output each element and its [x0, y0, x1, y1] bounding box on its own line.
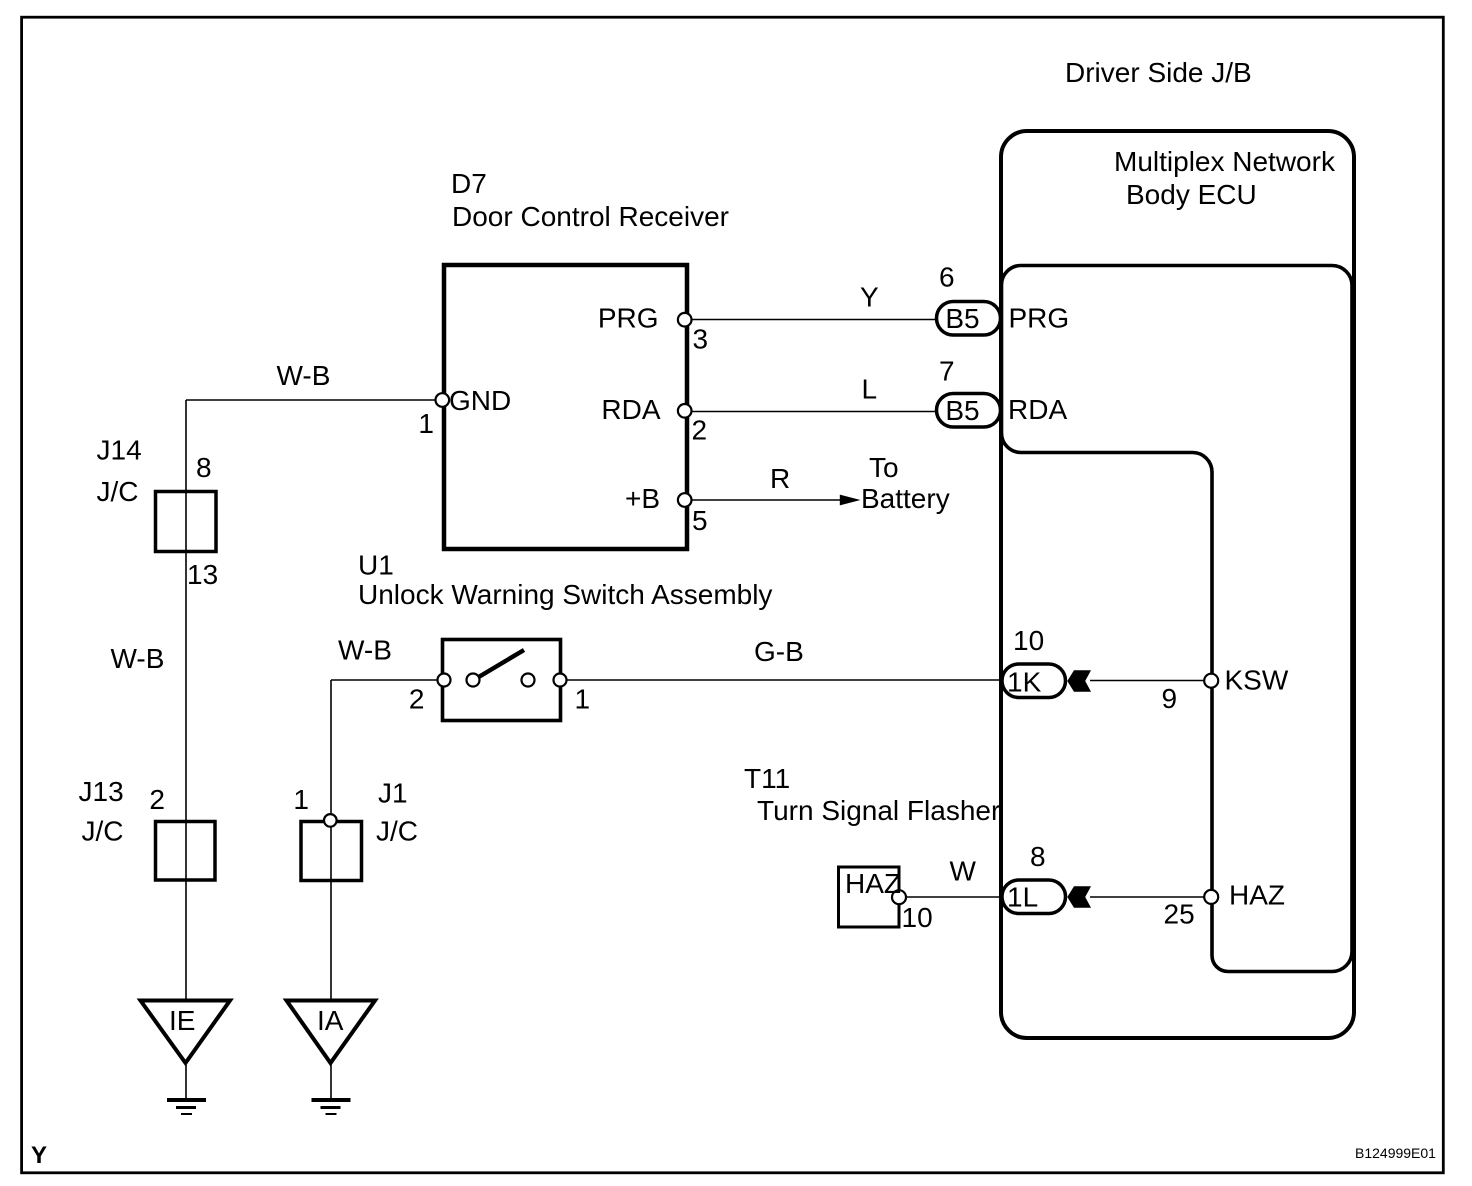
- svg-text:B5: B5: [945, 395, 979, 426]
- svg-text:13: 13: [187, 559, 218, 590]
- svg-text:J1: J1: [378, 778, 408, 809]
- svg-text:L: L: [862, 374, 878, 405]
- svg-text:9: 9: [1162, 683, 1178, 714]
- svg-text:10: 10: [1013, 625, 1044, 656]
- svg-text:Body ECU: Body ECU: [1126, 179, 1257, 210]
- svg-text:J/C: J/C: [97, 476, 139, 507]
- svg-text:Turn Signal Flasher: Turn Signal Flasher: [757, 795, 1000, 826]
- svg-text:U1: U1: [358, 550, 394, 581]
- svg-text:W-B: W-B: [277, 360, 331, 391]
- svg-text:D7: D7: [451, 168, 487, 199]
- svg-text:IA: IA: [317, 1005, 344, 1036]
- svg-text:Multiplex Network: Multiplex Network: [1114, 146, 1336, 177]
- svg-text:8: 8: [1030, 841, 1046, 872]
- svg-text:To: To: [869, 452, 899, 483]
- svg-text:10: 10: [902, 902, 933, 933]
- svg-text:IE: IE: [169, 1005, 195, 1036]
- svg-text:KSW: KSW: [1225, 665, 1289, 696]
- svg-text:+B: +B: [625, 483, 660, 514]
- svg-text:1: 1: [293, 784, 309, 815]
- svg-text:Y: Y: [860, 282, 879, 313]
- svg-text:PRG: PRG: [598, 303, 659, 334]
- svg-text:W-B: W-B: [338, 635, 392, 666]
- svg-text:T11: T11: [744, 763, 790, 794]
- svg-text:GND: GND: [449, 385, 511, 416]
- svg-text:2: 2: [149, 784, 165, 815]
- svg-text:B5: B5: [945, 303, 979, 334]
- svg-text:1: 1: [418, 408, 434, 439]
- svg-text:R: R: [770, 463, 790, 494]
- svg-text:Door Control Receiver: Door Control Receiver: [452, 201, 729, 232]
- svg-text:3: 3: [693, 324, 709, 355]
- svg-text:6: 6: [939, 262, 955, 293]
- svg-text:Y: Y: [31, 1142, 47, 1169]
- svg-text:HAZ: HAZ: [845, 868, 901, 899]
- svg-text:2: 2: [409, 684, 425, 715]
- svg-text:J13: J13: [79, 776, 124, 807]
- svg-text:1: 1: [575, 684, 591, 715]
- svg-text:G-B: G-B: [754, 636, 804, 667]
- svg-text:B124999E01: B124999E01: [1355, 1145, 1436, 1161]
- svg-text:RDA: RDA: [1008, 394, 1067, 425]
- svg-text:Unlock Warning Switch Assembly: Unlock Warning Switch Assembly: [358, 579, 772, 610]
- svg-text:J14: J14: [97, 435, 142, 466]
- svg-text:8: 8: [196, 452, 212, 483]
- svg-text:25: 25: [1164, 899, 1195, 930]
- svg-text:1L: 1L: [1007, 882, 1038, 913]
- svg-text:2: 2: [692, 415, 708, 446]
- svg-text:7: 7: [939, 356, 955, 387]
- svg-text:PRG: PRG: [1009, 303, 1070, 334]
- svg-text:Battery: Battery: [861, 483, 950, 514]
- svg-text:W-B: W-B: [111, 643, 165, 674]
- svg-text:J/C: J/C: [82, 816, 124, 847]
- svg-text:HAZ: HAZ: [1229, 880, 1285, 911]
- svg-text:1K: 1K: [1007, 667, 1042, 698]
- svg-text:RDA: RDA: [601, 394, 660, 425]
- svg-text:W: W: [950, 856, 977, 887]
- svg-text:5: 5: [692, 505, 708, 536]
- svg-text:J/C: J/C: [376, 816, 418, 847]
- svg-text:Driver Side J/B: Driver Side J/B: [1065, 57, 1252, 88]
